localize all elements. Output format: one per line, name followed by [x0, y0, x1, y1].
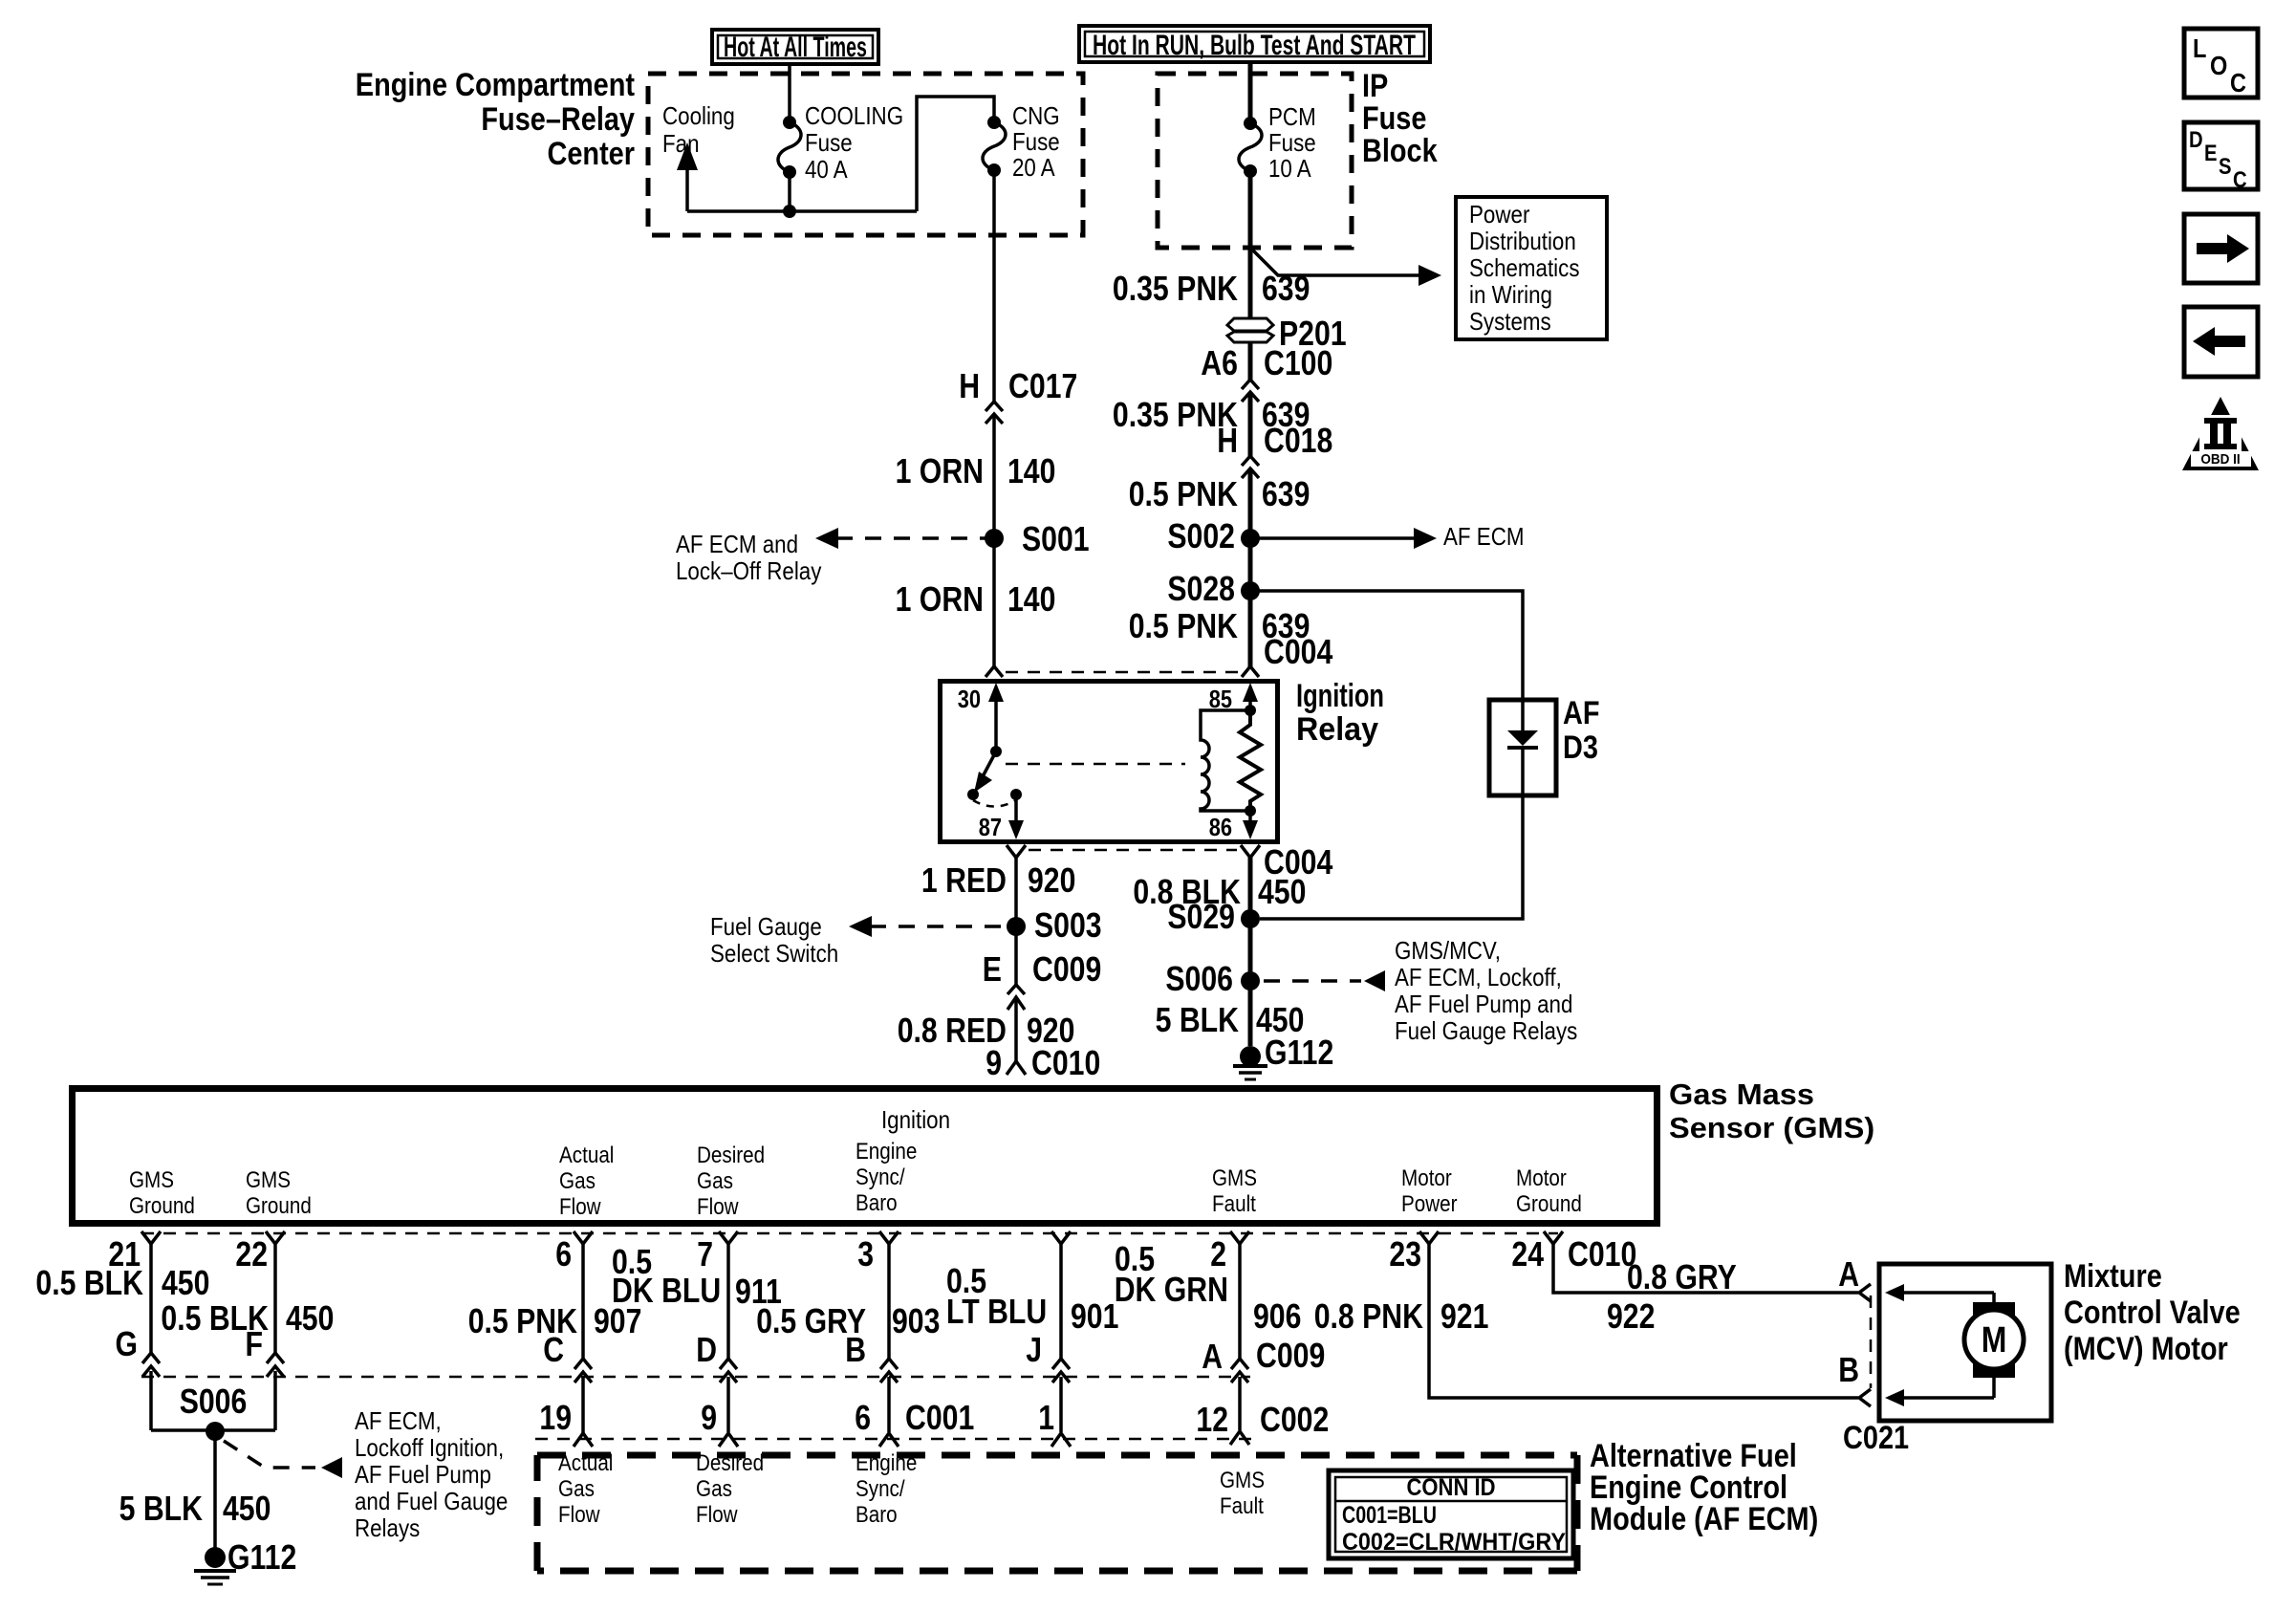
- wire label 0.8 RED 920: [898, 1011, 1075, 1050]
- svg-text:450: 450: [286, 1298, 334, 1338]
- connector C009 letter row: [116, 1324, 1326, 1376]
- svg-text:Ignition: Ignition: [881, 1105, 950, 1134]
- svg-text:AF: AF: [1563, 695, 1600, 731]
- junction node: [783, 205, 796, 218]
- diode box AF D3: [1489, 700, 1556, 795]
- relay dashed actuation link: [1006, 763, 1185, 766]
- svg-text:G: G: [116, 1324, 139, 1363]
- wire below COOLING fuse to junction: [788, 172, 791, 211]
- wire label 1 ORN 140 (lower): [896, 579, 1056, 619]
- dashed box: AF ECM: [537, 1455, 1577, 1571]
- svg-text:S006: S006: [1165, 959, 1233, 998]
- splice S029: [1167, 897, 1260, 936]
- fuse COOLING Fuse 40 A: [778, 116, 801, 179]
- GMS pin label Motor Power: [1401, 1165, 1458, 1217]
- connector C009 chevrons row: [142, 1353, 1248, 1382]
- label Cooling Fan: [662, 101, 735, 158]
- svg-text:450: 450: [223, 1489, 271, 1528]
- wires C D B 1 A down to C001/C002: [583, 1377, 1240, 1433]
- svg-text:3: 3: [857, 1234, 874, 1274]
- wire C017 to relay: [992, 416, 996, 669]
- header: Ignition Relay: [1296, 678, 1384, 748]
- svg-text:1: 1: [1038, 1398, 1054, 1437]
- relay resistor branch: [1240, 710, 1261, 811]
- dashed arrow S006 to GMS/MCV relays note: [1264, 936, 1577, 1045]
- svg-text:0.35 PNK: 0.35 PNK: [1113, 269, 1238, 308]
- svg-text:Fan: Fan: [662, 129, 700, 158]
- cooling fan arrow: [677, 142, 698, 211]
- svg-text:Desired: Desired: [697, 1143, 765, 1168]
- svg-text:Fuse: Fuse: [1362, 100, 1426, 137]
- svg-text:C002=CLR/WHT/GRY: C002=CLR/WHT/GRY: [1342, 1529, 1566, 1556]
- MCV terminal chevron B: [1859, 1389, 1871, 1406]
- label COOLING Fuse 40 A: [805, 101, 903, 184]
- svg-text:GMS: GMS: [1220, 1468, 1265, 1493]
- svg-text:LT BLU: LT BLU: [946, 1292, 1047, 1331]
- connector C009 dashed line: [141, 1376, 1250, 1379]
- svg-text:639: 639: [1262, 269, 1310, 308]
- svg-text:Flow: Flow: [697, 1194, 739, 1220]
- wire pin 21 down: [149, 1244, 153, 1356]
- svg-text:C002: C002: [1260, 1400, 1329, 1439]
- svg-text:12: 12: [1196, 1400, 1228, 1439]
- wire relay 87 down to S003: [1014, 858, 1018, 985]
- svg-text:CONN ID: CONN ID: [1407, 1474, 1496, 1501]
- svg-text:Motor: Motor: [1516, 1165, 1567, 1191]
- wire label 0.5 PNK 907 pin 6: [468, 1301, 642, 1340]
- svg-text:6: 6: [855, 1398, 871, 1437]
- svg-text:906: 906: [1253, 1296, 1301, 1336]
- svg-text:5 BLK: 5 BLK: [119, 1489, 203, 1528]
- svg-text:Ground: Ground: [129, 1193, 195, 1219]
- svg-text:9: 9: [986, 1043, 1002, 1082]
- svg-text:CNG: CNG: [1012, 101, 1060, 130]
- connector C004 chevrons above relay: [986, 666, 1259, 677]
- svg-text:C018: C018: [1264, 421, 1332, 460]
- svg-text:Cooling: Cooling: [662, 101, 735, 130]
- svg-text:A: A: [1838, 1254, 1859, 1294]
- AF ECM pin label Actual Gas Flow: [558, 1450, 613, 1528]
- wire S028 to AF D3 diode: [1250, 591, 1523, 702]
- icon OBD II triangle: [2182, 397, 2259, 470]
- wire label 0.5 PNK 639 (below S028): [1129, 606, 1310, 645]
- svg-text:Flow: Flow: [559, 1194, 601, 1220]
- svg-text:Gas Mass: Gas Mass: [1669, 1078, 1814, 1111]
- title box: Hot At All Times: [712, 30, 878, 64]
- svg-text:S028: S028: [1167, 569, 1235, 608]
- GMS pin label Actual Gas Flow: [559, 1143, 614, 1220]
- wire below PCM fuse through IP box bottom: [1248, 171, 1253, 321]
- svg-text:Actual: Actual: [559, 1143, 614, 1168]
- svg-text:C: C: [2233, 167, 2247, 193]
- connector C010 dashed line: [141, 1232, 1558, 1235]
- svg-text:E: E: [2204, 141, 2218, 166]
- svg-text:0.5 PNK: 0.5 PNK: [1129, 606, 1238, 645]
- svg-text:1 ORN: 1 ORN: [896, 451, 984, 490]
- svg-text:S002: S002: [1167, 516, 1235, 555]
- svg-text:Flow: Flow: [696, 1502, 738, 1528]
- connector label E C009: [983, 949, 1102, 989]
- wire label 0.35 PNK 639 (below C100): [1113, 395, 1310, 434]
- wire pin 2 down: [1238, 1244, 1242, 1361]
- svg-text:Block: Block: [1362, 133, 1438, 169]
- svg-text:AF ECM,: AF ECM,: [355, 1406, 442, 1435]
- svg-text:7: 7: [697, 1234, 713, 1274]
- table: CONN ID: [1329, 1470, 1573, 1558]
- label CNG Fuse 20 A: [1012, 101, 1060, 182]
- GMS pin label GMS Fault: [1212, 1165, 1257, 1217]
- svg-text:Gas: Gas: [558, 1476, 595, 1502]
- svg-text:S029: S029: [1167, 897, 1235, 936]
- wire label 0.5 GRY 903 pin 3: [756, 1301, 940, 1340]
- AF ECM pin label Engine Sync/Baro: [856, 1450, 917, 1528]
- svg-text:40 A: 40 A: [805, 155, 848, 184]
- motor M rotor and brushes: [1964, 1302, 2024, 1378]
- svg-text:AF ECM, Lockoff,: AF ECM, Lockoff,: [1395, 963, 1562, 991]
- wire pin 24 down right to MCV A: [1553, 1244, 1858, 1293]
- MCV inner wire A with arrowhead: [1885, 1284, 1994, 1304]
- connector C018 chevrons: [1242, 456, 1259, 478]
- title box: Hot In RUN, Bulb Test And START: [1079, 26, 1430, 62]
- connector label C004 450 below relay: [1133, 842, 1332, 911]
- wire relay 86 down to S029: [1248, 858, 1253, 1046]
- svg-text:A: A: [1202, 1337, 1223, 1376]
- header: Gas Mass Sensor (GMS): [1669, 1078, 1874, 1144]
- svg-text:C010: C010: [1031, 1043, 1100, 1082]
- connector label H C018: [1217, 421, 1332, 460]
- svg-text:C004: C004: [1264, 632, 1332, 671]
- GMS pin label Motor Ground: [1516, 1165, 1582, 1217]
- svg-text:COOLING: COOLING: [805, 101, 903, 130]
- svg-text:Schematics: Schematics: [1469, 253, 1580, 282]
- svg-text:Gas: Gas: [697, 1168, 733, 1194]
- icon DESC: [2184, 122, 2258, 193]
- svg-text:Baro: Baro: [856, 1502, 898, 1528]
- svg-text:Gas: Gas: [559, 1168, 596, 1194]
- svg-text:Power: Power: [1401, 1191, 1458, 1217]
- connector C021 dashed boundary: [1870, 1295, 1873, 1388]
- svg-text:Distribution: Distribution: [1469, 227, 1576, 255]
- svg-text:O: O: [2210, 51, 2227, 80]
- svg-text:C100: C100: [1264, 343, 1332, 382]
- splice S002: [1167, 516, 1260, 555]
- svg-text:D: D: [696, 1330, 717, 1369]
- splice S028: [1167, 569, 1260, 608]
- wire pin 3 down: [887, 1244, 891, 1361]
- wire label 0.5 BLK 450 pin 22: [161, 1298, 334, 1338]
- svg-text:AF Fuel Pump and: AF Fuel Pump and: [1395, 990, 1572, 1018]
- svg-text:M: M: [1982, 1320, 2007, 1361]
- wire up and right to CNG fuse: [917, 97, 994, 211]
- svg-text:Fuel Gauge Relays: Fuel Gauge Relays: [1395, 1016, 1577, 1045]
- header: IP Fuse Block: [1362, 68, 1438, 169]
- svg-text:Module (AF ECM): Module (AF ECM): [1590, 1501, 1818, 1537]
- svg-text:B: B: [845, 1330, 866, 1369]
- svg-text:G112: G112: [227, 1537, 296, 1577]
- svg-text:Select Switch: Select Switch: [710, 939, 838, 968]
- dashed arrow S006 left to relays note: [224, 1406, 508, 1542]
- wire pin 6 down: [581, 1244, 585, 1361]
- svg-text:22: 22: [235, 1234, 268, 1274]
- wire G down to S006 bus: [149, 1371, 153, 1430]
- wire label 0.5 PNK 639 (above S002): [1129, 474, 1310, 513]
- relay pin 87: [979, 795, 1024, 841]
- connector C001 terminals: [574, 1431, 1249, 1447]
- svg-text:Systems: Systems: [1469, 307, 1551, 336]
- header: Alternative Fuel Engine Control Module AF ECM: [1590, 1438, 1818, 1537]
- wire from Hot At All Times box to COOLING fuse: [788, 64, 791, 122]
- svg-text:450: 450: [1258, 872, 1306, 911]
- connector label A6 C100: [1201, 343, 1332, 382]
- svg-text:24: 24: [1511, 1234, 1544, 1274]
- svg-text:DK BLU: DK BLU: [612, 1271, 721, 1310]
- arrow to Power Distribution box: [1250, 248, 1441, 286]
- svg-text:C001=BLU: C001=BLU: [1342, 1502, 1437, 1529]
- svg-text:GMS: GMS: [129, 1167, 174, 1193]
- fuse PCM Fuse 10 A: [1239, 117, 1262, 178]
- svg-text:B: B: [1838, 1350, 1859, 1389]
- svg-text:450: 450: [162, 1263, 209, 1302]
- connector C004 dashed link above relay: [1006, 671, 1239, 674]
- svg-text:in Wiring: in Wiring: [1469, 280, 1552, 309]
- svg-text:Lock–Off Relay: Lock–Off Relay: [676, 556, 821, 585]
- svg-text:H: H: [1217, 421, 1238, 460]
- svg-text:19: 19: [539, 1398, 572, 1437]
- svg-text:Gas: Gas: [696, 1476, 732, 1502]
- svg-text:D3: D3: [1563, 729, 1598, 766]
- svg-text:AF Fuel Pump: AF Fuel Pump: [355, 1460, 491, 1489]
- svg-text:901: 901: [1071, 1296, 1118, 1336]
- svg-text:C009: C009: [1032, 949, 1101, 989]
- wire label 0.8 PNK 921 pin 23: [1314, 1296, 1489, 1336]
- wire C009 to C010: [1014, 1000, 1018, 1061]
- relay pin 30: [958, 683, 1004, 751]
- svg-text:1 ORN: 1 ORN: [896, 579, 984, 619]
- wire pin 22 down: [273, 1244, 277, 1356]
- ground G112 right: [1233, 1033, 1333, 1079]
- svg-text:C017: C017: [1008, 366, 1077, 405]
- wire from Hot In RUN box to PCM fuse: [1248, 62, 1253, 123]
- svg-text:Flow: Flow: [558, 1502, 600, 1528]
- pin numbers row C001 C002: [539, 1398, 1329, 1439]
- icon LOC: [2184, 29, 2258, 98]
- header: Mixture Control Valve MCV Motor: [2064, 1258, 2241, 1367]
- svg-text:AF ECM and: AF ECM and: [676, 530, 798, 558]
- AF ECM pin label GMS Fault: [1220, 1468, 1265, 1519]
- svg-text:30: 30: [958, 685, 981, 713]
- GMS pin label GMS Ground 21: [129, 1167, 195, 1219]
- dashed arrow S001 to AF ECM and Lock-Off Relay: [676, 528, 986, 585]
- diode D3: [1507, 702, 1538, 794]
- svg-text:S001: S001: [1022, 519, 1090, 558]
- S006 bus wire: [151, 1428, 275, 1432]
- dashed arrow S003 to Fuel Gauge Select Switch: [710, 912, 1007, 968]
- wire label 5 BLK 450 left: [119, 1489, 271, 1528]
- GMS pin label GMS Ground 22: [246, 1167, 312, 1219]
- GMS pin label Engine Sync/Baro: [856, 1139, 917, 1216]
- svg-text:9: 9: [701, 1398, 717, 1437]
- svg-text:Fuse: Fuse: [1012, 127, 1060, 156]
- wire pin 7 down: [726, 1244, 730, 1361]
- svg-text:Engine: Engine: [856, 1450, 917, 1476]
- connector C004 dashed link below relay: [1029, 849, 1237, 852]
- pin numbers row C010: [108, 1234, 1636, 1274]
- svg-text:Sync/: Sync/: [856, 1476, 905, 1502]
- svg-text:IP: IP: [1362, 68, 1388, 104]
- svg-text:C: C: [543, 1330, 564, 1369]
- icon arrow left: [2184, 307, 2258, 377]
- svg-text:Fuse–Relay: Fuse–Relay: [481, 101, 635, 138]
- svg-text:S: S: [2219, 154, 2232, 180]
- wire AF D3 to S029: [1260, 795, 1523, 919]
- svg-text:Power: Power: [1469, 200, 1530, 229]
- svg-text:Desired: Desired: [696, 1450, 764, 1476]
- svg-text:Fault: Fault: [1220, 1493, 1264, 1519]
- wire C100 to C018: [1248, 394, 1253, 457]
- splice S003: [1007, 905, 1102, 945]
- svg-text:2: 2: [1210, 1234, 1226, 1274]
- svg-text:C: C: [2230, 68, 2246, 98]
- svg-text:Control Valve: Control Valve: [2064, 1295, 2241, 1331]
- svg-text:20 A: 20 A: [1012, 153, 1055, 182]
- svg-text:920: 920: [1028, 860, 1075, 900]
- svg-text:Lockoff Ignition,: Lockoff Ignition,: [355, 1433, 504, 1462]
- grommet P201: [1227, 314, 1347, 353]
- svg-text:J: J: [1026, 1330, 1042, 1369]
- svg-text:Hot In RUN, Bulb Test And STAR: Hot In RUN, Bulb Test And START: [1093, 30, 1416, 61]
- svg-text:Center: Center: [548, 136, 636, 172]
- svg-text:DK GRN: DK GRN: [1115, 1270, 1228, 1309]
- svg-text:GMS: GMS: [1212, 1165, 1257, 1191]
- connector C100 chevrons: [1242, 380, 1259, 402]
- dashed box: Engine Compartment Fuse-Relay Center: [648, 74, 1083, 235]
- svg-text:GMS/MCV,: GMS/MCV,: [1395, 936, 1501, 965]
- splice S001: [985, 519, 1090, 558]
- wire below P201: [1248, 342, 1253, 381]
- svg-text:E: E: [983, 949, 1002, 989]
- svg-text:Sync/: Sync/: [856, 1165, 905, 1190]
- ground G112 left: [194, 1537, 296, 1584]
- wire label 0.5 BLK 450 pin 21: [35, 1263, 209, 1302]
- header: Engine Compartment Fuse-Relay Center: [356, 67, 635, 172]
- connector C004 Y-terminals below relay: [1007, 845, 1260, 858]
- svg-text:87: 87: [979, 813, 1002, 841]
- svg-text:(MCV) Motor: (MCV) Motor: [2064, 1331, 2228, 1367]
- component box: MCV Motor: [1879, 1264, 2051, 1421]
- svg-text:Engine Compartment: Engine Compartment: [356, 67, 635, 103]
- svg-text:C009: C009: [1256, 1336, 1325, 1375]
- svg-text:6: 6: [555, 1234, 572, 1274]
- svg-text:Fuse: Fuse: [1268, 128, 1316, 157]
- svg-text:1 RED: 1 RED: [921, 860, 1007, 900]
- svg-text:Mixture: Mixture: [2064, 1258, 2162, 1295]
- relay pin 85: [1209, 683, 1258, 716]
- relay box: Ignition Relay: [941, 682, 1278, 842]
- connector label H C017: [959, 366, 1077, 405]
- relay switch contact: [967, 746, 1022, 807]
- wire label 0.5 LT BLU 901 pin 1: [946, 1261, 1118, 1336]
- svg-text:A6: A6: [1201, 343, 1238, 382]
- wire label 5 BLK 450 right: [1156, 1000, 1305, 1039]
- MCV terminal chevron A: [1859, 1284, 1871, 1301]
- svg-text:Fuse: Fuse: [805, 128, 853, 157]
- wire C018 to relay: [1248, 470, 1253, 669]
- svg-text:5 BLK: 5 BLK: [1156, 1000, 1239, 1039]
- svg-text:H: H: [959, 366, 980, 405]
- connector C017 chevrons: [986, 402, 1003, 424]
- svg-text:OBD II: OBD II: [2200, 451, 2240, 468]
- svg-text:0.8 PNK: 0.8 PNK: [1314, 1296, 1423, 1336]
- label PCM Fuse 10 A: [1268, 102, 1316, 183]
- svg-text:Fuel Gauge: Fuel Gauge: [710, 912, 822, 941]
- wire label 0.5 DK BLU 911 pin 7: [612, 1242, 782, 1311]
- svg-text:23: 23: [1389, 1234, 1421, 1274]
- svg-text:Ground: Ground: [246, 1193, 312, 1219]
- svg-text:L: L: [2193, 33, 2206, 63]
- fuse CNG Fuse 20 A: [983, 116, 1006, 177]
- wire F down to S006 bus: [273, 1371, 277, 1430]
- svg-text:G112: G112: [1265, 1033, 1333, 1072]
- svg-text:0.5 BLK: 0.5 BLK: [35, 1263, 143, 1302]
- splice S006 right: [1165, 959, 1260, 998]
- svg-text:0.5 PNK: 0.5 PNK: [1129, 474, 1238, 513]
- svg-text:GMS: GMS: [246, 1167, 291, 1193]
- MCV inner wire B with arrowhead: [1885, 1377, 1994, 1406]
- connector terminal 9 C010: [986, 1043, 1100, 1082]
- splice S006 left: [180, 1382, 248, 1441]
- relay coil inductor branch: [1201, 710, 1250, 811]
- wire label 1 RED 920: [921, 860, 1076, 900]
- wire S006 to G112 left: [213, 1431, 217, 1549]
- svg-text:S003: S003: [1034, 905, 1102, 945]
- relay pin 86: [1209, 805, 1258, 841]
- svg-text:0.8 GRY: 0.8 GRY: [1627, 1257, 1737, 1296]
- svg-text:C021: C021: [1843, 1420, 1909, 1456]
- svg-text:Engine: Engine: [856, 1139, 917, 1165]
- wire pin 1 down: [1059, 1244, 1063, 1361]
- svg-text:140: 140: [1007, 451, 1055, 490]
- svg-text:639: 639: [1262, 474, 1310, 513]
- svg-text:Baro: Baro: [856, 1190, 898, 1216]
- arrow S002 to AF ECM: [1250, 522, 1525, 551]
- svg-text:Sensor (GMS): Sensor (GMS): [1669, 1111, 1874, 1144]
- wire label 0.8 GRY 922 pin 24: [1607, 1257, 1737, 1336]
- connector C010 Y-terminals: [141, 1231, 1563, 1244]
- box: Power Distribution Schematics in Wiring Systems: [1456, 197, 1607, 339]
- svg-text:Ground: Ground: [1516, 1191, 1582, 1217]
- svg-text:86: 86: [1209, 813, 1232, 841]
- svg-text:921: 921: [1440, 1296, 1488, 1336]
- svg-text:C001: C001: [905, 1398, 974, 1437]
- svg-text:F: F: [246, 1324, 264, 1363]
- wire label 0.5 DK GRN 906 pin 2: [1115, 1239, 1302, 1336]
- svg-text:Relays: Relays: [355, 1513, 420, 1542]
- wire pin 23 down right to MCV B: [1429, 1244, 1858, 1398]
- svg-text:922: 922: [1607, 1296, 1655, 1336]
- svg-text:140: 140: [1007, 579, 1055, 619]
- svg-text:Relay: Relay: [1296, 711, 1378, 748]
- AF ECM pin label Desired Gas Flow: [696, 1450, 764, 1528]
- dashed box: IP Fuse Block: [1158, 74, 1352, 248]
- wire label 1 ORN 140 (upper): [896, 451, 1056, 490]
- wire CNG fuse down to C017: [992, 170, 996, 403]
- svg-text:Fault: Fault: [1212, 1191, 1256, 1217]
- svg-text:Actual: Actual: [558, 1450, 613, 1476]
- icon arrow right: [2184, 214, 2258, 283]
- svg-text:Motor: Motor: [1401, 1165, 1452, 1191]
- connector C001/C002 dashed line: [535, 1438, 1254, 1441]
- svg-text:903: 903: [892, 1301, 940, 1340]
